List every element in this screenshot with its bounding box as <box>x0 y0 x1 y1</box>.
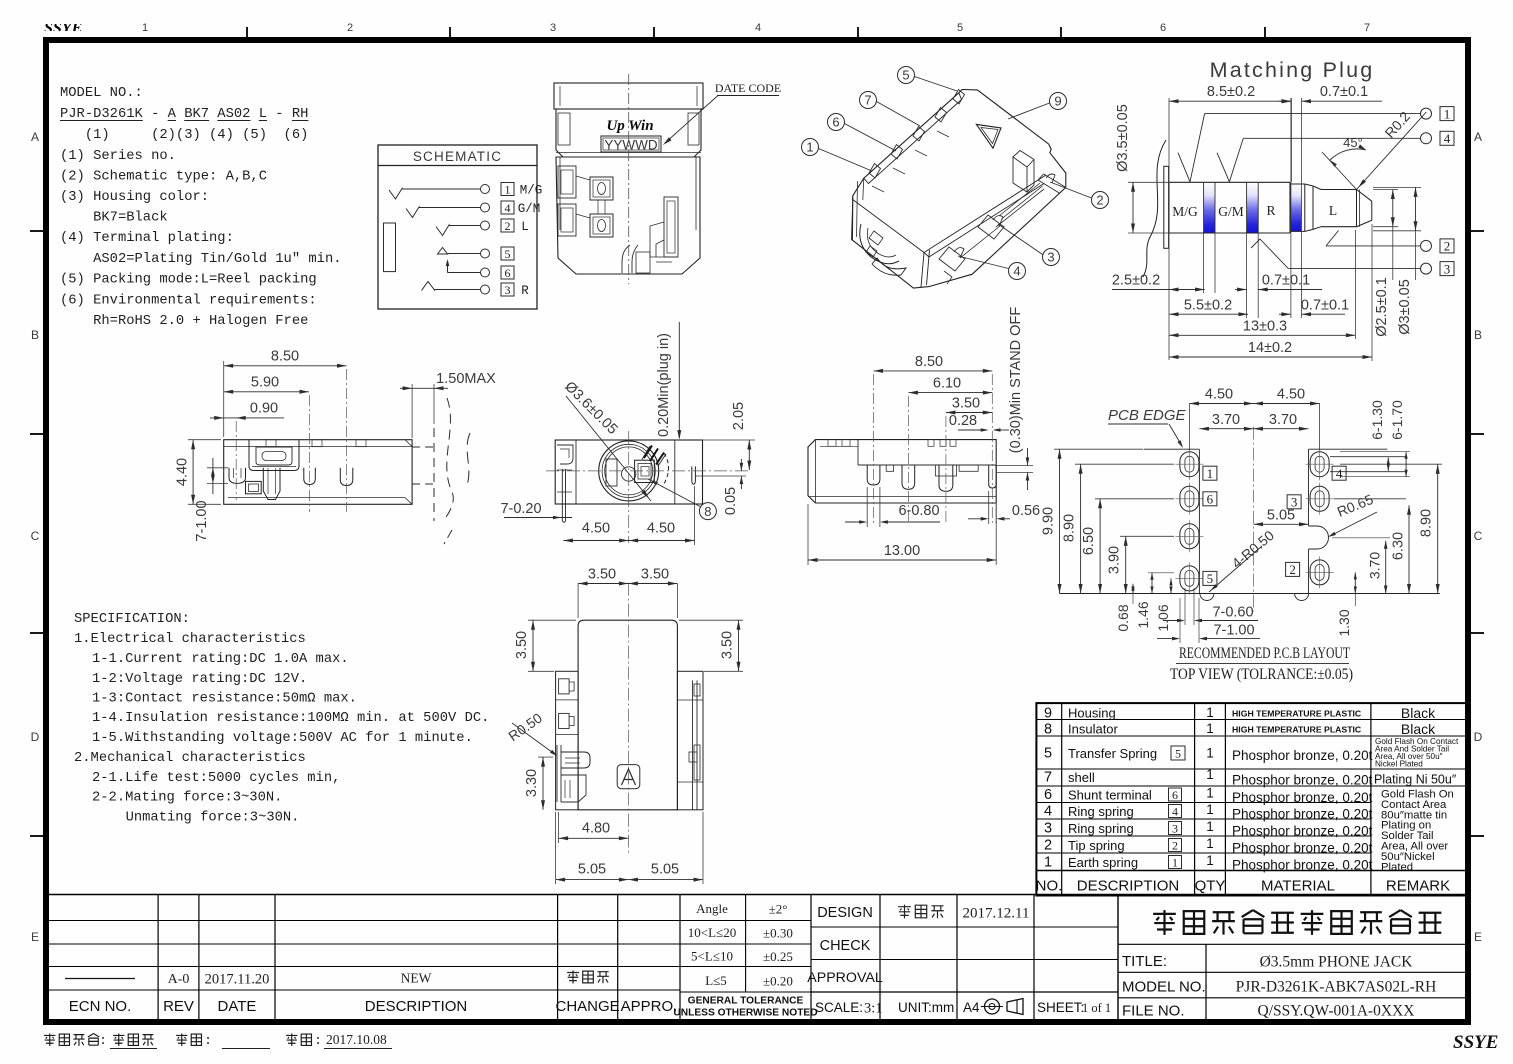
svg-text:0.28: 0.28 <box>949 413 977 429</box>
svg-text:3: 3 <box>505 283 511 297</box>
pcb dim 3.90 <box>1107 536 1174 593</box>
svg-text:2: 2 <box>347 22 353 34</box>
svg-text:2-2.Mating force:3~30N.: 2-2.Mating force:3~30N. <box>92 790 282 806</box>
svg-text:SSYE: SSYE <box>1453 1032 1498 1053</box>
svg-text:1: 1 <box>1044 855 1052 871</box>
svg-text:R: R <box>1266 203 1275 218</box>
side view body <box>224 440 412 505</box>
title block grid <box>1118 896 1466 1021</box>
svg-text:1-5.Withstanding voltage:500V: 1-5.Withstanding voltage:500V AC for 1 m… <box>92 730 473 746</box>
pcb dim 6-1.30 <box>1369 400 1390 471</box>
svg-text:4.80: 4.80 <box>582 820 610 836</box>
svg-text:UNIT:mm: UNIT:mm <box>898 1000 954 1015</box>
svg-text:1: 1 <box>1172 855 1178 869</box>
svg-text:Phosphor bronze, 0.20t: Phosphor bronze, 0.20t <box>1232 841 1373 856</box>
svg-text:FILE NO.: FILE NO. <box>1122 1003 1185 1020</box>
plug section labels <box>1172 203 1337 219</box>
svg-text:2.Mechanical characteristics: 2.Mechanical characteristics <box>74 750 306 766</box>
approval row <box>807 970 883 986</box>
svg-text:Phosphor bronze, 0.20t: Phosphor bronze, 0.20t <box>1232 748 1373 763</box>
schematic contact 3 (R ring) <box>422 282 530 299</box>
isometric rail tabs <box>869 90 965 179</box>
svg-text:1-3:Contact resistance:50mΩ ma: 1-3:Contact resistance:50mΩ max. <box>92 691 357 707</box>
svg-text:D: D <box>1474 730 1483 744</box>
svg-text:7: 7 <box>1364 22 1370 34</box>
revision row A-0 <box>65 971 609 988</box>
schematic box frame <box>378 145 537 309</box>
pcb pad 1 <box>1175 448 1203 480</box>
svg-text:Plated: Plated <box>1381 861 1413 873</box>
svg-text:4: 4 <box>1336 466 1343 481</box>
svg-text:5<L≤10: 5<L≤10 <box>691 949 733 964</box>
svg-text:M/G: M/G <box>1172 204 1198 219</box>
svg-text:6.50: 6.50 <box>1081 527 1097 555</box>
side view pin 1 <box>229 468 246 484</box>
side view dim 8.50 <box>224 349 347 437</box>
svg-text:AS02=Plating Tin/Gold 1u″ min.: AS02=Plating Tin/Gold 1u″ min. <box>60 251 342 267</box>
svg-text:1-1.Current rating:DC 1.0A max: 1-1.Current rating:DC 1.0A max. <box>92 651 349 667</box>
svg-text:6-1.70: 6-1.70 <box>1389 400 1405 440</box>
svg-text:7-1.00: 7-1.00 <box>1213 623 1254 639</box>
svg-text:1: 1 <box>806 140 813 155</box>
svg-text:3: 3 <box>1172 821 1178 835</box>
pcb pad number boxes <box>1203 466 1346 586</box>
svg-text:1: 1 <box>1206 786 1214 801</box>
svg-text:QTY: QTY <box>1195 878 1226 895</box>
bottom view dim 3.50 3.50 top <box>578 567 677 618</box>
dim ⌀3.5±0.05 <box>1115 104 1135 233</box>
front view balloon 8 <box>648 479 716 520</box>
svg-text:Up Win: Up Win <box>606 118 653 134</box>
zone numbers top <box>142 22 1370 34</box>
svg-text:REV: REV <box>163 998 194 1015</box>
pcb dim 8.90 left <box>1062 464 1174 593</box>
svg-text:5: 5 <box>505 247 511 261</box>
svg-text:shell: shell <box>1068 770 1095 785</box>
svg-text:RECOMMENDED P.C.B LAYOUT: RECOMMENDED P.C.B LAYOUT <box>1179 645 1350 662</box>
svg-text:6: 6 <box>832 115 839 130</box>
bottom view dim 3.30 <box>524 757 553 810</box>
schematic title <box>413 149 502 164</box>
balloon 4 <box>958 256 1026 280</box>
check row <box>820 938 871 954</box>
svg-text:1: 1 <box>1206 767 1214 782</box>
front view dashed spring arc <box>662 453 669 487</box>
svg-text:CHANGE: CHANGE <box>556 998 620 1015</box>
plug insulator band 3 <box>1291 184 1302 231</box>
plug insulator band 2 <box>1247 182 1259 233</box>
svg-text:3.70: 3.70 <box>1367 552 1383 579</box>
schematic contact 1 (M/G tip normal) <box>389 182 542 199</box>
plug extension lines <box>1128 98 1421 361</box>
svg-text:G/M: G/M <box>1218 204 1244 219</box>
svg-text:Ring spring: Ring spring <box>1068 821 1134 836</box>
bottom view right strip <box>677 680 703 809</box>
svg-text:A4: A4 <box>963 1000 980 1015</box>
front view dim 4.50 4.50 <box>563 486 694 545</box>
svg-text:NO.: NO. <box>1036 878 1063 895</box>
center line (date code view) <box>628 74 630 284</box>
approval table grid <box>43 895 1466 1021</box>
svg-text:6: 6 <box>505 266 511 280</box>
svg-text:5: 5 <box>957 22 963 34</box>
footer SSYE logo <box>1453 1032 1498 1053</box>
svg-text:10<L≤20: 10<L≤20 <box>688 925 736 940</box>
balloon 1 <box>802 139 873 172</box>
svg-text:DESCRIPTION: DESCRIPTION <box>1077 878 1180 895</box>
svg-text:DATE: DATE <box>218 998 257 1015</box>
svg-text::: : <box>204 1033 212 1048</box>
dim 8.5±0.2 <box>1169 84 1291 103</box>
isometric bay floor lines <box>960 183 1044 258</box>
zone letters right <box>1474 130 1483 944</box>
zone tick marks top <box>247 27 1265 40</box>
svg-text:G/M: G/M <box>518 202 541 216</box>
front view dim 7-0.20 <box>500 501 572 519</box>
svg-text:3.50: 3.50 <box>588 567 616 583</box>
pcb pad 5 <box>1175 562 1203 594</box>
svg-text:3.30: 3.30 <box>524 769 540 797</box>
pcb dim 1.46 <box>1135 573 1174 629</box>
sheet cell <box>1037 1000 1111 1015</box>
svg-text:9: 9 <box>1054 94 1061 109</box>
bottom view dim 5.05 5.05 <box>556 812 703 884</box>
pcb dim 1.06 <box>1155 578 1173 631</box>
svg-text:2-1.Life test:5000 cycles min,: 2-1.Life test:5000 cycles min, <box>92 770 340 786</box>
svg-text:Nickel Plated: Nickel Plated <box>1375 760 1423 769</box>
schematic shield bar <box>384 223 396 272</box>
side view dim 4.40 <box>174 440 221 505</box>
svg-text:Phosphor bronze, 0.20t: Phosphor bronze, 0.20t <box>1232 858 1373 873</box>
bom row 4 ring spring <box>1044 802 1373 822</box>
svg-text:B: B <box>1474 328 1482 342</box>
svg-text:4: 4 <box>1013 264 1020 279</box>
balloon 6 <box>828 114 897 152</box>
svg-text:Tip spring: Tip spring <box>1068 838 1125 853</box>
bottom view dim 4.80 <box>559 812 629 843</box>
svg-text:8.50: 8.50 <box>271 349 299 365</box>
front view left hook <box>557 445 573 492</box>
svg-text:3: 3 <box>1444 261 1451 276</box>
dim 0.7±0.1 top <box>1279 84 1382 103</box>
svg-text:L: L <box>521 220 529 234</box>
svg-text:4.50: 4.50 <box>1205 387 1233 403</box>
svg-text:Rh=RoHS 2.0 + Halogen Free: Rh=RoHS 2.0 + Halogen Free <box>60 313 308 329</box>
side view dim 1.50MAX <box>400 371 496 438</box>
svg-text:Transfer Spring: Transfer Spring <box>1068 746 1157 761</box>
front view inner left slot <box>606 459 617 486</box>
bottom view body <box>556 620 703 810</box>
svg-text::: : <box>99 1033 107 1048</box>
svg-text:CHECK: CHECK <box>820 938 871 954</box>
svg-text:3.50: 3.50 <box>720 631 736 659</box>
specification text block <box>74 612 489 826</box>
tolerance table grid <box>680 895 811 1021</box>
dim ⌀2.5±0.1 <box>1374 190 1395 337</box>
pcb outline <box>1060 449 1440 600</box>
front view left pin down <box>562 469 565 522</box>
svg-text:0.7±0.1: 0.7±0.1 <box>1262 273 1310 289</box>
pcb pad 2 <box>1306 556 1334 588</box>
svg-text:1: 1 <box>1206 819 1214 834</box>
front view center lines <box>546 431 751 543</box>
svg-text:M/G: M/G <box>520 184 543 198</box>
svg-text:6: 6 <box>1160 22 1166 34</box>
plug insulator band 1 <box>1204 182 1215 233</box>
pcb dim 3.70 right <box>1332 538 1390 594</box>
side view latch detail <box>249 440 299 471</box>
pcb caption <box>1170 645 1353 683</box>
svg-text:Matching Plug: Matching Plug <box>1210 58 1375 82</box>
svg-text:0.56: 0.56 <box>1012 503 1040 519</box>
svg-text:YYWWD: YYWWD <box>604 138 657 153</box>
pcb dim 4-R0.50 <box>1209 527 1277 592</box>
pcb dim 6.50 <box>1081 499 1174 594</box>
svg-text:Phosphor bronze, 0.20t: Phosphor bronze, 0.20t <box>1232 807 1373 822</box>
svg-text:3: 3 <box>1044 821 1052 837</box>
company name 东莞市高迪电子有限公司 <box>1153 910 1441 935</box>
svg-text:1: 1 <box>1206 746 1214 761</box>
svg-text:PJR-D3261K-ABK7AS02L-RH: PJR-D3261K-ABK7AS02L-RH <box>1236 979 1437 996</box>
svg-text:8.5±0.2: 8.5±0.2 <box>1207 84 1255 100</box>
svg-text:1 of 1: 1 of 1 <box>1082 1001 1111 1015</box>
svg-text:SCHEMATIC: SCHEMATIC <box>413 149 502 164</box>
bom row 3 ring spring <box>1044 819 1373 839</box>
pcb dim 6.30 <box>1334 499 1411 594</box>
svg-text:2.05: 2.05 <box>731 402 747 430</box>
svg-text:MODEL NO.:: MODEL NO.: <box>60 86 143 101</box>
svg-text:6: 6 <box>1044 787 1052 803</box>
svg-text:5: 5 <box>1175 746 1181 760</box>
svg-text:1: 1 <box>142 22 148 34</box>
svg-text:R: R <box>521 284 529 298</box>
front view barrel circles <box>599 441 659 501</box>
svg-text:A-0: A-0 <box>168 972 190 987</box>
svg-text:6.30: 6.30 <box>1391 532 1407 560</box>
svg-text:1: 1 <box>1207 466 1214 481</box>
bottom view dim R0.50 <box>505 710 557 756</box>
svg-text:Ø3.5±0.05: Ø3.5±0.05 <box>1115 104 1131 172</box>
front view dim ⌀3.6±0.05 <box>561 379 651 501</box>
svg-text:5.05: 5.05 <box>651 862 679 878</box>
bottom view dim 3.50 right <box>679 620 743 671</box>
side view center lines <box>236 369 346 512</box>
isometric left end cap <box>851 178 863 240</box>
svg-text:HIGH TEMPERATURE PLASTIC: HIGH TEMPERATURE PLASTIC <box>1232 725 1362 735</box>
svg-text::: : <box>314 1033 322 1048</box>
isometric direction triangle marker <box>976 124 1001 148</box>
side view center pin <box>263 468 280 500</box>
svg-text:1: 1 <box>1206 721 1214 736</box>
svg-text:Ø3±0.05: Ø3±0.05 <box>1397 279 1413 335</box>
svg-text:2: 2 <box>1444 239 1451 254</box>
schematic contact 6 (shunt arrow) <box>446 259 514 280</box>
svg-text:1.30: 1.30 <box>1336 609 1352 636</box>
revision table grid <box>43 895 680 1021</box>
svg-text:TITLE:: TITLE: <box>1122 953 1167 970</box>
scale unit sheet row <box>815 999 1023 1017</box>
svg-text:Q/SSY.QW-001A-0XXX: Q/SSY.QW-001A-0XXX <box>1258 1003 1415 1020</box>
date code view outer cap <box>554 83 703 109</box>
plug pin 1 callout <box>1178 106 1454 182</box>
pcb dim 3.70 3.70 <box>1199 412 1308 431</box>
front view dim 0.05 <box>696 459 746 515</box>
svg-text:GENERAL TOLERANCE: GENERAL TOLERANCE <box>688 996 804 1007</box>
balloon 3 <box>998 224 1060 266</box>
svg-text:5.90: 5.90 <box>251 374 279 390</box>
svg-text:8.50: 8.50 <box>915 354 943 370</box>
svg-text:8.90: 8.90 <box>1419 509 1435 537</box>
svg-text:0.05: 0.05 <box>723 487 739 515</box>
balloon 5 <box>898 67 958 92</box>
svg-text:APPRO.: APPRO. <box>621 998 678 1015</box>
pcb dim 9.90 <box>1041 449 1144 593</box>
svg-text:5: 5 <box>902 68 909 83</box>
side view pin 3 <box>304 468 316 485</box>
svg-text:7-0.20: 7-0.20 <box>500 501 541 517</box>
bom header row <box>1036 878 1450 895</box>
svg-text:3: 3 <box>550 22 556 34</box>
svg-text:3.50: 3.50 <box>641 567 669 583</box>
bottom view dim 3.50 left <box>514 620 576 671</box>
svg-text:Insulator: Insulator <box>1068 722 1119 737</box>
svg-text:6.10: 6.10 <box>933 376 961 392</box>
svg-text:0.7±0.1: 0.7±0.1 <box>1320 84 1368 100</box>
matching plug title <box>1210 58 1375 82</box>
bom merged remark rows 6-1 <box>1381 789 1454 874</box>
svg-text:3.70: 3.70 <box>1212 412 1240 428</box>
svg-text:SCALE:: SCALE: <box>815 1000 863 1015</box>
front view right pin <box>692 466 696 484</box>
svg-text:Ring spring: Ring spring <box>1068 804 1134 819</box>
svg-text:4.40: 4.40 <box>174 458 190 486</box>
svg-text:MODEL NO.: MODEL NO. <box>1122 979 1206 996</box>
bom row 6 shunt terminal <box>1044 786 1373 806</box>
top view dim 13.00 <box>808 504 996 565</box>
svg-text:2017.10.08: 2017.10.08 <box>326 1032 387 1047</box>
body terminals with oval holes <box>590 177 613 237</box>
top view dim 0.56 <box>968 491 1040 524</box>
top view dim 6-0.80 <box>845 487 940 527</box>
pcb dim 1.30 <box>1336 572 1357 636</box>
svg-text:1.50MAX: 1.50MAX <box>436 371 496 387</box>
top view dim 0.28 <box>949 413 1009 432</box>
svg-text:0.20Min(plug in): 0.20Min(plug in) <box>656 333 672 437</box>
svg-text:1: 1 <box>1206 836 1214 851</box>
svg-text:B: B <box>31 328 39 342</box>
dim 2.5±0.2 <box>1112 273 1205 292</box>
isometric terminal 4 <box>939 247 965 284</box>
svg-text:6-0.80: 6-0.80 <box>898 503 939 519</box>
svg-text:UNLESS OTHERWISE NOTED: UNLESS OTHERWISE NOTED <box>673 1008 817 1019</box>
svg-text:8: 8 <box>704 504 711 519</box>
isometric housing silhouette <box>852 90 1065 289</box>
dim 45° <box>1322 135 1366 190</box>
svg-text:3.90: 3.90 <box>1107 546 1123 574</box>
svg-text:1-2:Voltage rating:DC 12V.: 1-2:Voltage rating:DC 12V. <box>92 671 307 687</box>
side view square detail <box>246 481 262 493</box>
svg-text:Unmating force:3~30N.: Unmating force:3~30N. <box>126 810 300 826</box>
carrier tape dashed <box>412 398 470 544</box>
svg-text:6-1.30: 6-1.30 <box>1369 400 1385 440</box>
pcb dim 8.90 right <box>1340 464 1442 593</box>
svg-text:45°: 45° <box>1343 135 1363 150</box>
svg-text:Phosphor bronze, 0.20t: Phosphor bronze, 0.20t <box>1232 790 1373 805</box>
isometric terminal 3 <box>978 215 1004 239</box>
svg-text:13±0.3: 13±0.3 <box>1243 318 1287 334</box>
svg-text:4.50: 4.50 <box>647 521 675 537</box>
svg-text:2: 2 <box>1044 838 1052 854</box>
isometric terminal rail <box>864 93 962 192</box>
pcb center line <box>1253 427 1255 612</box>
svg-text:Black: Black <box>1401 721 1436 737</box>
svg-text:1: 1 <box>1444 106 1451 121</box>
svg-text:C: C <box>1474 529 1483 543</box>
svg-text:(1) (2)(3) (4) (5) (6): (1) (2)(3) (4) (5) (6) <box>60 127 308 143</box>
svg-text:E: E <box>1474 930 1482 944</box>
bottom view center line <box>627 583 629 853</box>
svg-text:SHEET:: SHEET: <box>1037 1000 1084 1015</box>
svg-text:1: 1 <box>505 182 511 196</box>
svg-text:(1) Series no.: (1) Series no. <box>60 148 176 164</box>
top view body <box>808 440 996 503</box>
dim 0.7±0.1 mid <box>1235 273 1322 292</box>
top view dim (0.30)Min STAND OFF <box>996 307 1033 490</box>
svg-text:7: 7 <box>1044 770 1052 786</box>
pcb dim 6-1.70 <box>1340 400 1410 477</box>
svg-text:D: D <box>31 730 40 744</box>
svg-text:8: 8 <box>1044 722 1052 738</box>
title row <box>1122 953 1413 971</box>
svg-text:Plating Ni 50u″: Plating Ni 50u″ <box>1374 773 1457 787</box>
svg-text:4: 4 <box>1044 804 1052 820</box>
svg-text:E: E <box>31 930 39 944</box>
front view dim 2.05 <box>703 402 755 470</box>
isometric barrel cutout <box>860 224 906 275</box>
svg-text:3:1: 3:1 <box>864 1001 883 1017</box>
svg-text:2: 2 <box>1172 838 1178 852</box>
svg-text:5.05: 5.05 <box>1267 507 1295 523</box>
svg-text:±0.30: ±0.30 <box>763 926 793 941</box>
pcb dim R0.65 <box>1328 491 1377 537</box>
svg-text:DESCRIPTION: DESCRIPTION <box>365 998 468 1015</box>
clipped logo text top-left corner <box>44 20 82 37</box>
plug pin 4 callout <box>1217 131 1454 182</box>
side view dim 5.90 <box>224 374 309 394</box>
balloon 7 <box>860 92 921 127</box>
svg-text:DATE CODE: DATE CODE <box>715 81 781 95</box>
svg-text:1: 1 <box>1206 705 1214 720</box>
dim ⌀3±0.05 <box>1397 187 1418 334</box>
svg-text:0.90: 0.90 <box>250 401 278 417</box>
dim R0.2 leader <box>1357 108 1427 189</box>
body right side details <box>622 197 678 273</box>
svg-text:1.46: 1.46 <box>1135 601 1151 628</box>
svg-text:A: A <box>1474 130 1482 144</box>
pcb edge label <box>1108 407 1187 448</box>
svg-text:C: C <box>31 529 40 543</box>
svg-text:4: 4 <box>505 201 511 215</box>
dim 14±0.2 <box>1169 340 1372 359</box>
svg-text:BK7=Black: BK7=Black <box>60 210 168 226</box>
bom row 8 insulator <box>1044 721 1436 738</box>
svg-text:(5) Packing mode:L=Reel packin: (5) Packing mode:L=Reel packing <box>60 272 317 288</box>
svg-text:4.50: 4.50 <box>1277 387 1305 403</box>
svg-text:0.7±0.1: 0.7±0.1 <box>1301 297 1349 313</box>
svg-text:7-1.00: 7-1.00 <box>194 500 210 541</box>
svg-text:ECN NO.: ECN NO. <box>69 998 132 1015</box>
isometric terminal 2 <box>1038 174 1066 194</box>
